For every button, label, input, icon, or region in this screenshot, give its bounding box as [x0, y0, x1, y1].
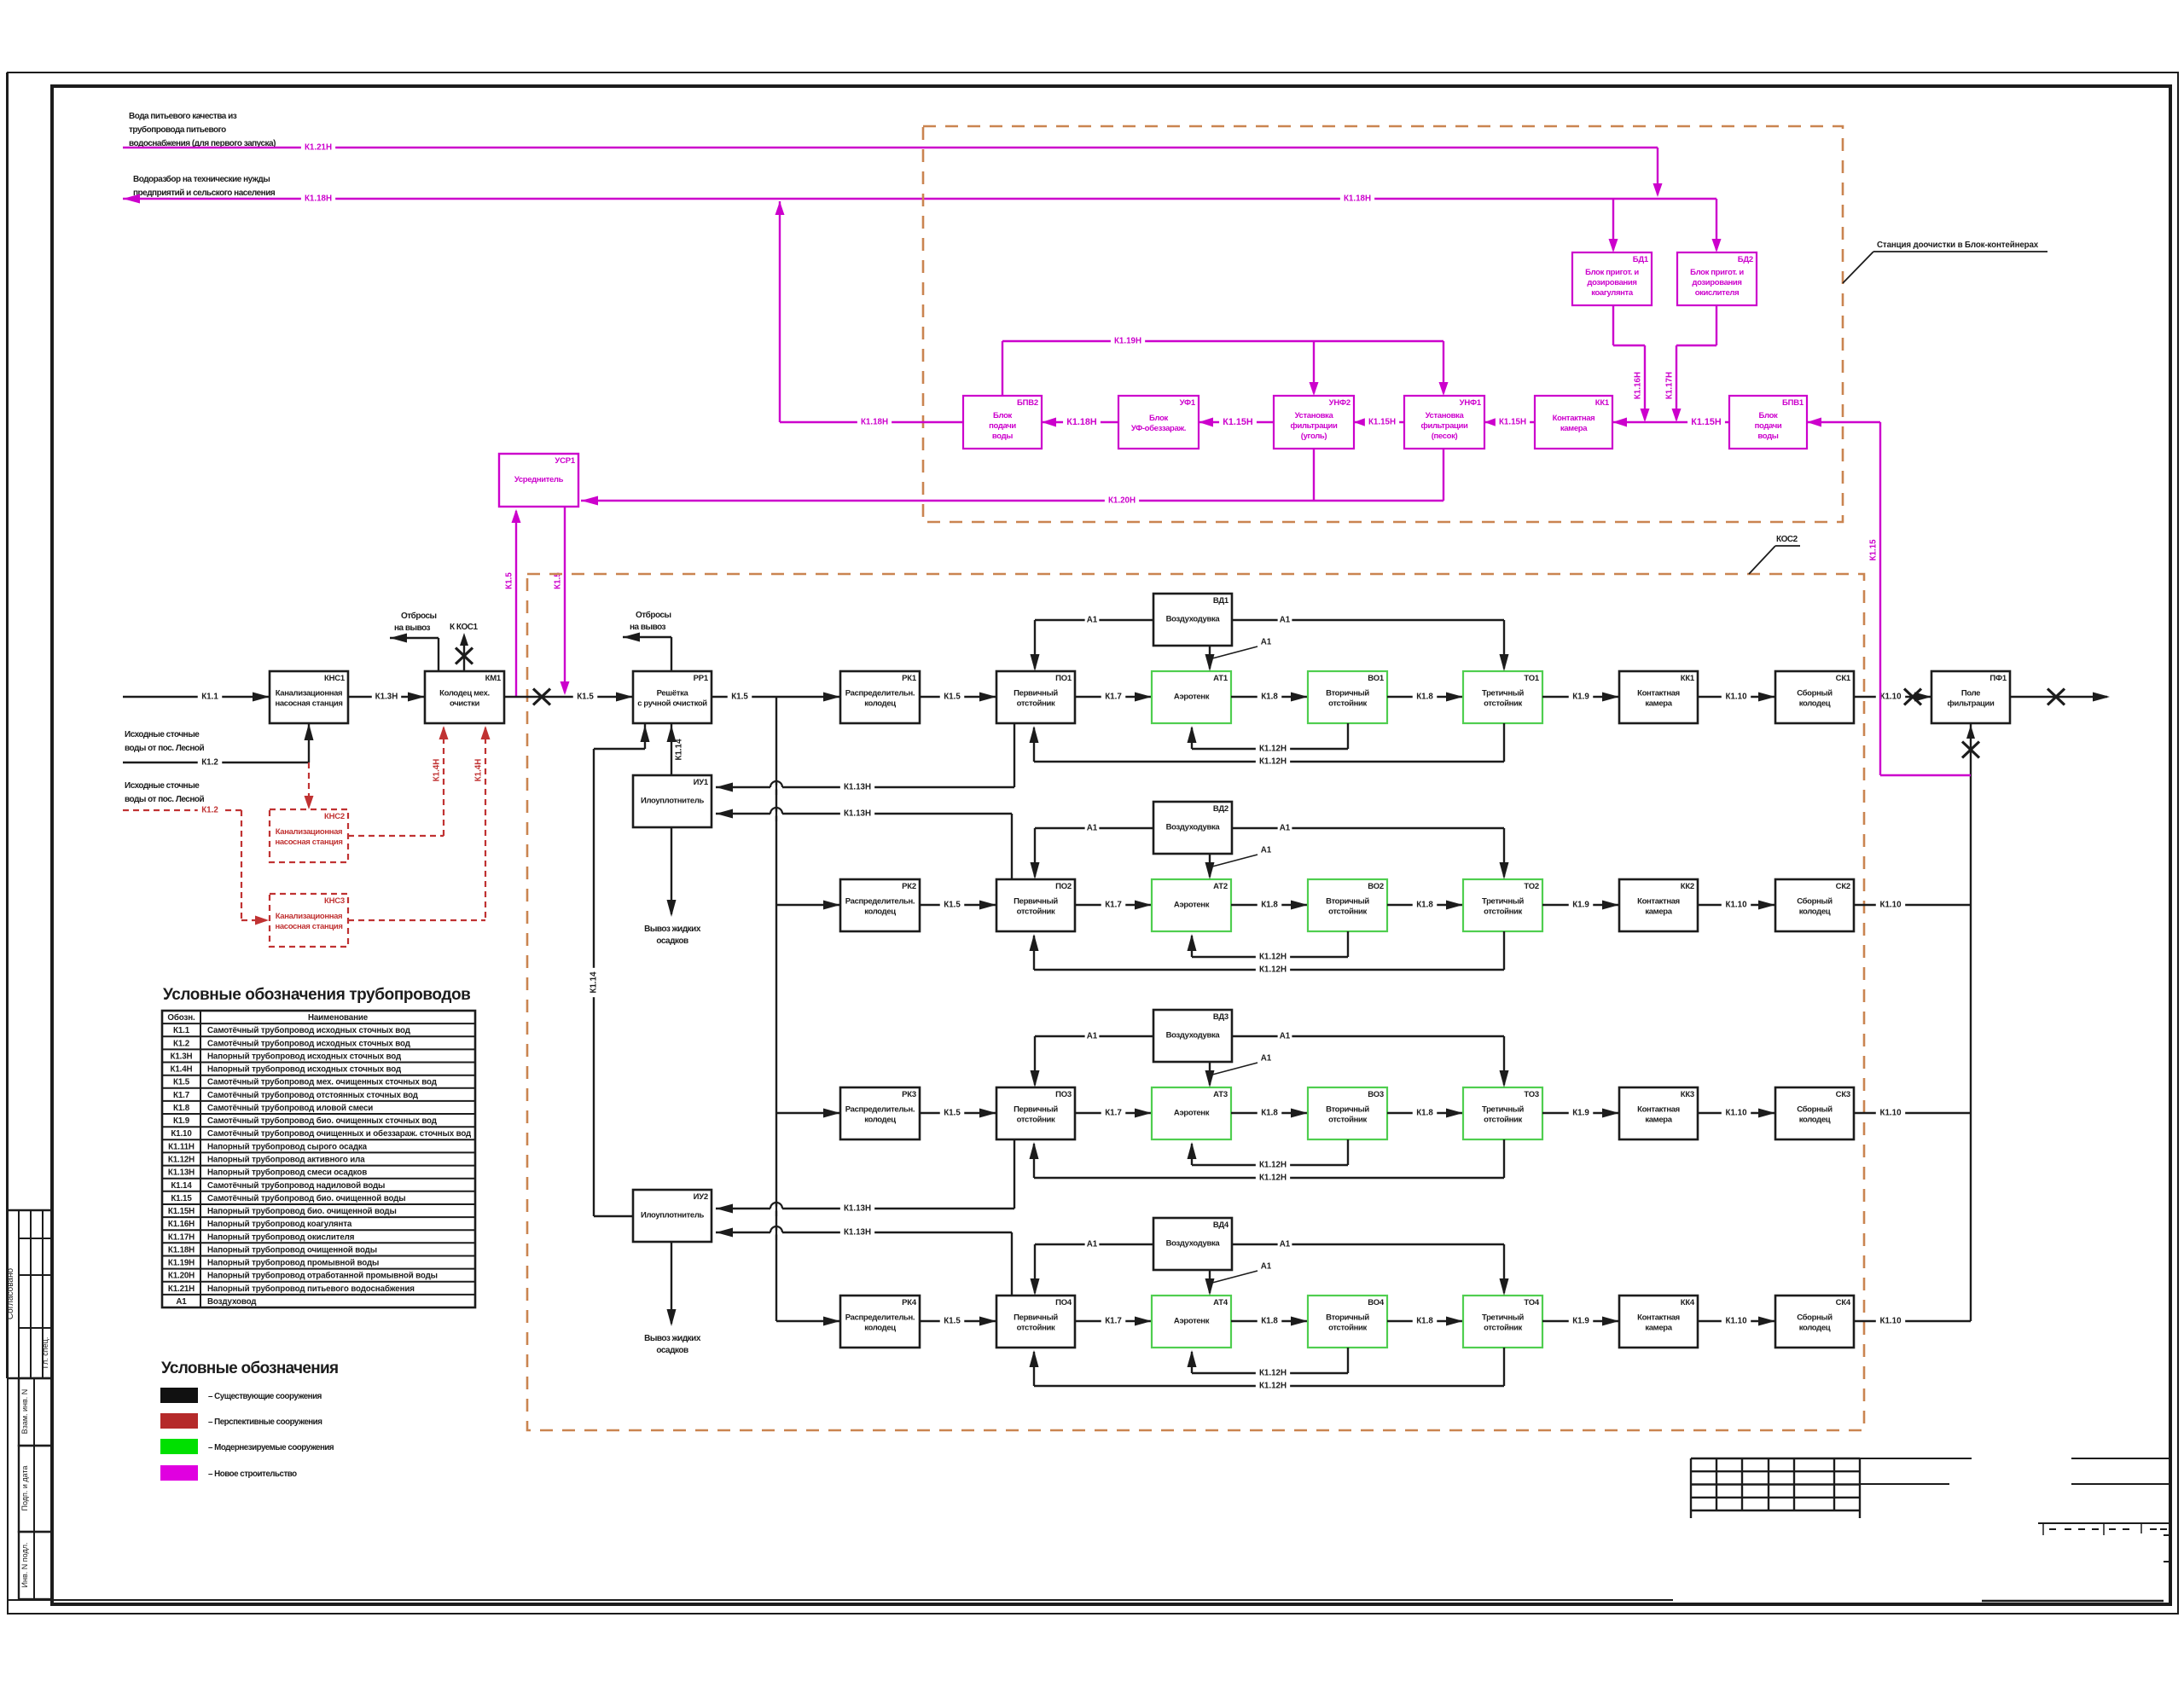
svg-text:К1.8: К1.8 — [173, 1104, 190, 1113]
wire К1.5 branch to РК4 — [776, 1320, 840, 1322]
svg-text:Вторичный: Вторичный — [1326, 1313, 1369, 1323]
svg-text:К1.14: К1.14 — [675, 739, 684, 761]
svg-text:ВО1: ВО1 — [1368, 674, 1385, 683]
svg-text:К1.2: К1.2 — [173, 1039, 190, 1048]
wire К1.2 inflow to КНС1 bottom — [123, 762, 309, 763]
svg-text:К1.5: К1.5 — [505, 572, 514, 589]
svg-text:АТ4: АТ4 — [1213, 1298, 1228, 1307]
wire К1.18Н treated water to consumers — [123, 198, 1716, 200]
svg-text:коагулянта: коагулянта — [1591, 288, 1634, 298]
left stamp column boxes — [6, 72, 8, 1378]
box АТ1 aeration tank (modernized) — [1152, 671, 1231, 723]
svg-text:К1.12Н: К1.12Н — [1259, 953, 1287, 962]
wire К1.9 ТО1 to КК1 — [1542, 696, 1619, 698]
svg-text:Аэротенк: Аэротенк — [1174, 693, 1210, 702]
legend swatch Существующие сооружения — [160, 1388, 198, 1403]
svg-text:фильтрации: фильтрации — [1421, 421, 1468, 431]
svg-text:К1.10: К1.10 — [1879, 693, 1902, 702]
box ПО4 primary settler — [996, 1296, 1075, 1348]
svg-text:К1.8: К1.8 — [1261, 1109, 1278, 1118]
wire into БД2 top — [1716, 199, 1717, 250]
box ПО1 primary settler — [996, 671, 1075, 723]
svg-text:ВД3: ВД3 — [1213, 1012, 1228, 1022]
wire К1.10 СК2 to collector — [1854, 904, 1971, 906]
svg-text:К1.9: К1.9 — [1572, 693, 1589, 702]
wire К1.12Н sludge ТО2 to ПО2 — [1503, 931, 1505, 970]
svg-text:К1.8: К1.8 — [1261, 901, 1278, 910]
svg-text:К1.10: К1.10 — [1725, 901, 1747, 910]
wire К1.5 branch to РК3 — [776, 1112, 840, 1114]
svg-text:Контактная: Контактная — [1637, 689, 1680, 699]
box РК1 distribution well — [840, 671, 920, 723]
svg-text:Воздуходувка: Воздуходувка — [1166, 1239, 1221, 1249]
wire К1.17Н oxidizer line from БД2 — [1716, 305, 1717, 345]
wire К1.5 РК2 to ПО2 — [920, 904, 996, 906]
wire К1.12Н activated sludge ВО1 to АТ1 — [1347, 723, 1349, 749]
svg-text:Наименование: Наименование — [308, 1013, 369, 1023]
svg-text:А1: А1 — [1261, 846, 1272, 855]
svg-text:Напорный трубопровод питьевого: Напорный трубопровод питьевого водоснабж… — [207, 1284, 415, 1294]
svg-text:К1.9: К1.9 — [1572, 1317, 1589, 1326]
svg-text:Блок пригот. и: Блок пригот. и — [1690, 268, 1744, 277]
svg-text:колодец: колодец — [1799, 907, 1831, 917]
wire К1.4Н from КНС3 to КМ1 — [348, 919, 485, 921]
box ВД3 air blower — [1153, 1010, 1232, 1062]
svg-text:колодец: колодец — [1799, 699, 1831, 709]
legend swatch Перспективные сооружения — [160, 1413, 198, 1429]
wire К1.10 СК4 to collector — [1854, 1320, 1971, 1322]
svg-text:К1.9: К1.9 — [173, 1116, 190, 1126]
svg-text:Канализационная: Канализационная — [276, 827, 343, 837]
wire К1.14 from ИУ1 up to РР1 — [671, 723, 672, 775]
svg-text:РК3: РК3 — [902, 1090, 916, 1099]
svg-text:Распределительн.: Распределительн. — [845, 1313, 915, 1323]
wire К1.5 distribution riser down to lower rows — [775, 697, 777, 1321]
svg-text:К1.10: К1.10 — [171, 1129, 192, 1139]
svg-text:Третичный: Третичный — [1482, 1105, 1524, 1115]
wire А1 air to ПО4 — [1035, 1244, 1153, 1245]
svg-text:А1: А1 — [1280, 1032, 1291, 1041]
svg-text:К1.15: К1.15 — [171, 1194, 192, 1203]
svg-text:Согласовано: Согласовано — [6, 1268, 15, 1320]
wire А1 air to АТ2 with leader label — [1209, 854, 1211, 877]
svg-text:Сборный: Сборный — [1797, 1313, 1833, 1323]
svg-text:Гл. спец.: Гл. спец. — [41, 1337, 49, 1369]
svg-text:БПВ2: БПВ2 — [1017, 398, 1038, 408]
svg-text:А1: А1 — [1261, 638, 1272, 647]
box УНФ1 filtration unit (sand) — [1404, 396, 1484, 449]
stamp box Взам. инв. N — [19, 1378, 52, 1446]
svg-text:К1.13Н: К1.13Н — [844, 1228, 871, 1238]
svg-text:Напорный трубопровод исходных: Напорный трубопровод исходных сточных во… — [207, 1065, 402, 1075]
box КМ1 mechanical cleaning well — [425, 671, 504, 723]
svg-text:К1.7: К1.7 — [1105, 1317, 1122, 1326]
box БД2 oxidizer dosing unit — [1677, 252, 1757, 305]
svg-text:А1: А1 — [1087, 1240, 1098, 1249]
wire К1.8 АТ1 to ВО1 — [1231, 696, 1308, 698]
svg-text:камера: камера — [1645, 1116, 1672, 1125]
svg-text:Распределительн.: Распределительн. — [845, 689, 915, 699]
wire К1.1 raw sewage inflow — [123, 696, 270, 698]
wire БПВ2 output to К1.18Н riser — [780, 421, 963, 423]
svg-text:УНФ2: УНФ2 — [1329, 398, 1350, 408]
svg-text:ВО3: ВО3 — [1368, 1090, 1384, 1099]
wire К1.8 ВО3 to ТО3 — [1387, 1112, 1463, 1114]
box ПФ1 filtration field — [1931, 671, 2010, 723]
svg-text:осадков: осадков — [656, 1346, 688, 1355]
svg-text:К1.15Н: К1.15Н — [1499, 418, 1526, 427]
wire К1.9 ТО3 to КК3 — [1542, 1112, 1619, 1114]
wire К1.19Н wash water from БПВ2 to filters — [1002, 341, 1003, 396]
wire К1.9 ТО2 to КК2 — [1542, 904, 1619, 906]
box ИУ2 sludge thickener 2 — [633, 1190, 712, 1242]
svg-text:дозирования: дозирования — [1587, 278, 1636, 287]
wire ИУ2 discharge down — [671, 1242, 672, 1324]
wire К1.5 РР1 to РК1 with junction — [712, 696, 840, 698]
wire К1.7 ПО3 to АТ3 — [1075, 1112, 1152, 1114]
wire К1.21Н drinking water supply line — [123, 147, 1658, 148]
svg-text:Самотёчный трубопровод иловой: Самотёчный трубопровод иловой смеси — [207, 1104, 373, 1113]
svg-text:подачи: подачи — [989, 421, 1016, 431]
box КК1 contact chamber — [1619, 671, 1698, 723]
stamp box Инв. N подл. — [19, 1532, 52, 1599]
svg-text:СК4: СК4 — [1836, 1298, 1851, 1307]
svg-text:А1: А1 — [1087, 1032, 1098, 1041]
svg-text:очистки: очистки — [450, 699, 480, 709]
svg-text:Сборный: Сборный — [1797, 897, 1833, 907]
svg-text:КМ1: КМ1 — [485, 674, 502, 683]
svg-text:Условные обозначения трубопров: Условные обозначения трубопроводов — [163, 986, 470, 1004]
svg-text:Установка: Установка — [1295, 411, 1334, 420]
box ТО4 tertiary settler (modernized) — [1463, 1296, 1542, 1348]
wire К1.7 ПО2 to АТ2 — [1075, 904, 1152, 906]
wire ИУ1 discharge down — [671, 827, 672, 914]
svg-text:Вторичный: Вторичный — [1326, 689, 1369, 699]
box КК2 contact chamber — [1619, 879, 1698, 931]
wire К1.13Н from ПО2 to ИУ1 — [1011, 814, 1013, 879]
svg-text:ПО4: ПО4 — [1055, 1298, 1072, 1307]
svg-text:камера: камера — [1645, 699, 1672, 709]
svg-text:Подп. и дата: Подп. и дата — [20, 1465, 29, 1510]
svg-text:камера: камера — [1560, 424, 1588, 433]
svg-text:К1.21Н: К1.21Н — [305, 143, 332, 153]
wire БПВ1 to КК1 К1.15Н — [1612, 421, 1729, 423]
svg-text:отстойник: отстойник — [1484, 1116, 1522, 1125]
wire А1 air to АТ4 with leader label — [1209, 1270, 1211, 1293]
box АТ2 aeration tank (modernized) — [1152, 879, 1231, 931]
svg-text:К1.17Н: К1.17Н — [1665, 372, 1675, 399]
svg-text:А1: А1 — [1261, 1054, 1272, 1064]
wire К1.12Н activated sludge ВО4 to АТ4 — [1347, 1348, 1349, 1373]
svg-text:с ручной очисткой: с ручной очисткой — [637, 699, 707, 709]
svg-text:К1.12Н: К1.12Н — [1259, 1161, 1287, 1170]
wire А1 air to ПО1 — [1035, 619, 1153, 621]
svg-text:К1.4Н: К1.4Н — [171, 1065, 193, 1075]
svg-text:отстойник: отстойник — [1017, 907, 1055, 917]
svg-text:К1.8: К1.8 — [1416, 693, 1433, 702]
svg-text:К1.14: К1.14 — [171, 1181, 192, 1191]
box ПО3 primary settler — [996, 1087, 1075, 1139]
wire into БД1 top — [1612, 199, 1614, 250]
svg-text:Контактная: Контактная — [1637, 1105, 1680, 1115]
box БПВ2 water supply block 2 — [963, 396, 1042, 449]
box КК1 contact chamber (new) — [1535, 396, 1612, 449]
svg-text:А1: А1 — [1087, 616, 1098, 625]
wire К1.5 РК4 to ПО4 — [920, 1320, 996, 1322]
svg-text:КК1: КК1 — [1681, 674, 1695, 683]
box УНФ2 filtration unit (coal) — [1274, 396, 1354, 449]
wire А1 air to ТО4 — [1232, 1244, 1504, 1245]
wire К1.13Н from ПО3 to ИУ2 — [1014, 1139, 1015, 1209]
svg-text:насосная станция: насосная станция — [275, 699, 342, 709]
svg-text:К1.12Н: К1.12Н — [1259, 965, 1287, 975]
svg-text:отстойник: отстойник — [1017, 699, 1055, 709]
wire К1.12Н activated sludge ВО2 to АТ2 — [1347, 931, 1349, 957]
svg-text:К1.5: К1.5 — [944, 901, 961, 910]
svg-text:К1.18Н: К1.18Н — [1066, 417, 1097, 427]
svg-text:К1.18Н: К1.18Н — [168, 1245, 195, 1255]
svg-text:отстойник: отстойник — [1328, 1324, 1367, 1333]
svg-text:ВО2: ВО2 — [1368, 882, 1384, 891]
svg-text:УНФ1: УНФ1 — [1460, 398, 1482, 408]
svg-text:Сборный: Сборный — [1797, 1105, 1833, 1115]
svg-text:Водоразбор на технические нужд: Водоразбор на технические нужды — [133, 174, 270, 184]
svg-text:КК2: КК2 — [1681, 882, 1694, 891]
wire УНФ1 to УНФ2 К1.15Н — [1354, 421, 1404, 423]
svg-text:Распределительн.: Распределительн. — [845, 897, 915, 907]
svg-text:Самотёчный трубопровод био. оч: Самотёчный трубопровод био. очищенной во… — [207, 1194, 405, 1203]
svg-text:Первичный: Первичный — [1014, 689, 1058, 699]
box БПВ1 water supply block 1 — [1729, 396, 1807, 449]
box РР1 manual grate — [633, 671, 712, 723]
svg-text:К1.18Н: К1.18Н — [1344, 194, 1371, 204]
wire К1.5 from УСР1 down to main line — [564, 507, 566, 693]
svg-text:Напорный трубопровод смеси оса: Напорный трубопровод смеси осадков — [207, 1168, 367, 1178]
svg-text:насосная станция: насосная станция — [275, 922, 342, 931]
box СК4 collecting well — [1775, 1296, 1854, 1348]
svg-text:ТО4: ТО4 — [1524, 1298, 1540, 1307]
svg-text:ВО4: ВО4 — [1368, 1298, 1385, 1307]
svg-text:К1.17Н: К1.17Н — [168, 1232, 195, 1242]
svg-text:– Модернезируемые сооружения: – Модернезируемые сооружения — [208, 1443, 334, 1452]
svg-text:К1.19Н: К1.19Н — [168, 1259, 195, 1268]
svg-text:К1.16Н: К1.16Н — [1634, 372, 1643, 399]
svg-text:на вывоз: на вывоз — [394, 623, 431, 633]
svg-text:К1.21Н: К1.21Н — [168, 1284, 195, 1294]
wire К1.8 АТ2 to ВО2 — [1231, 904, 1308, 906]
box КНС3 perspective pumping station — [270, 894, 348, 947]
svg-text:КОС2: КОС2 — [1776, 535, 1798, 544]
svg-text:СК2: СК2 — [1836, 882, 1850, 891]
svg-text:К1.18Н: К1.18Н — [861, 418, 888, 427]
svg-text:ПФ1: ПФ1 — [1989, 674, 2007, 683]
svg-text:Илоуплотнитель: Илоуплотнитель — [641, 1211, 705, 1220]
svg-text:камера: камера — [1645, 1324, 1672, 1333]
svg-text:К1.13Н: К1.13Н — [844, 1204, 871, 1214]
svg-text:Третичный: Третичный — [1482, 897, 1524, 907]
wire А1 air to АТ3 with leader label — [1209, 1062, 1211, 1085]
box АТ4 aeration tank (modernized) — [1152, 1296, 1231, 1348]
wire А1 air to АТ1 with leader label — [1209, 646, 1211, 669]
svg-text:К1.12Н: К1.12Н — [168, 1156, 195, 1165]
svg-text:фильтрации: фильтрации — [1291, 421, 1338, 431]
svg-text:Самотёчный трубопровод очищенн: Самотёчный трубопровод очищенных и обезз… — [207, 1129, 472, 1139]
wire К1.10 СК3 to collector — [1854, 1112, 1971, 1114]
svg-text:ТО2: ТО2 — [1524, 882, 1539, 891]
svg-text:К1.13Н: К1.13Н — [844, 809, 871, 819]
svg-text:Аэротенк: Аэротенк — [1174, 901, 1210, 910]
box СК3 collecting well — [1775, 1087, 1854, 1139]
box ВО3 secondary settler (modernized) — [1308, 1087, 1387, 1139]
wire К1.8 АТ3 to ВО3 — [1231, 1112, 1308, 1114]
svg-text:Третичный: Третичный — [1482, 689, 1524, 699]
svg-text:Самотёчный трубопровод био. оч: Самотёчный трубопровод био. очищенных ст… — [207, 1116, 438, 1126]
wire УНФ2 to УФ1 К1.15Н — [1199, 421, 1274, 423]
wire К1.10 КК4 to СК4 — [1698, 1320, 1775, 1322]
svg-text:отстойник: отстойник — [1484, 699, 1522, 709]
box ВО2 secondary settler (modernized) — [1308, 879, 1387, 931]
svg-text:К1.10: К1.10 — [1725, 1109, 1747, 1118]
title block lines extending right — [1860, 1458, 1972, 1459]
svg-text:Воздуходувка: Воздуходувка — [1166, 823, 1221, 832]
svg-text:К1.14: К1.14 — [590, 971, 599, 994]
svg-text:колодец: колодец — [1799, 1324, 1831, 1333]
svg-text:К1.8: К1.8 — [1416, 901, 1433, 910]
wire К1.8 АТ4 to ВО4 — [1231, 1320, 1308, 1322]
svg-text:РК2: РК2 — [902, 882, 916, 891]
svg-text:отстойник: отстойник — [1017, 1116, 1055, 1125]
svg-text:ВД1: ВД1 — [1213, 596, 1229, 606]
svg-text:воды от пос. Лесной: воды от пос. Лесной — [125, 795, 204, 804]
svg-text:К1.5: К1.5 — [173, 1078, 190, 1087]
svg-text:УФ1: УФ1 — [1180, 398, 1196, 408]
svg-text:К1.9: К1.9 — [1572, 1109, 1589, 1118]
svg-text:ПО1: ПО1 — [1055, 674, 1072, 683]
svg-text:Напорный трубопровод очищенной: Напорный трубопровод очищенной воды — [207, 1245, 377, 1255]
svg-text:Станция доочистки в Блок-конте: Станция доочистки в Блок-контейнерах — [1877, 241, 2039, 250]
svg-text:Самотёчный трубопровод исходны: Самотёчный трубопровод исходных сточных … — [207, 1026, 411, 1035]
wire К1.7 ПО4 to АТ4 — [1075, 1320, 1152, 1322]
legend swatch Модернезируемые сооружения — [160, 1439, 198, 1454]
svg-text:СК3: СК3 — [1836, 1090, 1850, 1099]
svg-text:Вторичный: Вторичный — [1326, 1105, 1369, 1115]
wire А1 air to ТО2 — [1232, 827, 1504, 829]
svg-text:К1.8: К1.8 — [1261, 693, 1278, 702]
svg-text:Взам. инв. N: Взам. инв. N — [20, 1389, 29, 1435]
box РК4 distribution well — [840, 1296, 920, 1348]
svg-text:А1: А1 — [1280, 616, 1291, 625]
svg-text:КК4: КК4 — [1681, 1298, 1695, 1307]
wire collector riser to ПФ1 bottom with valve — [1970, 723, 1972, 1321]
svg-text:Отбросы: Отбросы — [401, 611, 437, 621]
svg-text:Первичный: Первичный — [1014, 1105, 1058, 1115]
svg-text:К1.12Н: К1.12Н — [1259, 1369, 1287, 1378]
svg-text:К1.9: К1.9 — [1572, 901, 1589, 910]
svg-text:Исходные сточные: Исходные сточные — [125, 781, 200, 791]
svg-text:ТО3: ТО3 — [1524, 1090, 1539, 1099]
svg-text:К1.20Н: К1.20Н — [1108, 496, 1136, 506]
svg-text:предприятий и сельского населе: предприятий и сельского населения — [133, 188, 276, 198]
svg-text:отстойник: отстойник — [1328, 699, 1367, 709]
svg-text:К1.10: К1.10 — [1725, 693, 1747, 702]
svg-text:Аэротенк: Аэротенк — [1174, 1317, 1210, 1326]
wire К1.12Н sludge ТО3 to ПО3 — [1503, 1139, 1505, 1178]
callout: Станция доочистки label — [1843, 252, 1873, 283]
wire К1.21Н drop to dosing units — [1657, 148, 1658, 194]
svg-text:ВД2: ВД2 — [1213, 804, 1228, 814]
svg-text:К1.15: К1.15 — [1869, 539, 1879, 561]
svg-text:Напорный трубопровод сырого ос: Напорный трубопровод сырого осадка — [207, 1142, 368, 1151]
svg-text:КК1: КК1 — [1595, 398, 1610, 408]
svg-text:Блок: Блок — [993, 411, 1012, 420]
wire outflow from ПФ1 with valve — [2010, 696, 2107, 698]
svg-text:К1.18Н: К1.18Н — [305, 194, 332, 204]
wire К1.9 ТО4 to КК4 — [1542, 1320, 1619, 1322]
svg-text:РК4: РК4 — [902, 1298, 917, 1307]
box ВД1 air blower — [1153, 594, 1232, 646]
svg-text:колодец: колодец — [864, 1324, 896, 1333]
svg-text:Напорный трубопровод исходных: Напорный трубопровод исходных сточных во… — [207, 1052, 402, 1062]
svg-text:Установка: Установка — [1426, 411, 1465, 420]
svg-text:К1.4Н: К1.4Н — [474, 759, 484, 782]
svg-text:Усреднитель: Усреднитель — [514, 475, 564, 484]
svg-text:Третичный: Третичный — [1482, 1313, 1524, 1323]
svg-text:К1.2: К1.2 — [201, 758, 218, 768]
svg-text:К1.4Н: К1.4Н — [433, 759, 442, 782]
legend table grid — [162, 1011, 475, 1307]
svg-text:камера: камера — [1645, 907, 1672, 917]
svg-text:К1.5: К1.5 — [577, 693, 594, 702]
svg-text:К1.15Н: К1.15Н — [1691, 417, 1722, 427]
svg-text:БД1: БД1 — [1633, 255, 1649, 264]
svg-text:Вторичный: Вторичный — [1326, 897, 1369, 907]
svg-text:К1.1: К1.1 — [201, 693, 218, 702]
svg-text:К1.10: К1.10 — [1725, 1317, 1747, 1326]
wire А1 air to ПО2 — [1035, 827, 1153, 829]
svg-text:Самотёчный трубопровод отстоян: Самотёчный трубопровод отстоянных сточны… — [207, 1091, 419, 1100]
svg-text:отстойник: отстойник — [1017, 1324, 1055, 1333]
svg-text:Канализационная: Канализационная — [276, 689, 343, 699]
svg-text:Блок: Блок — [1759, 411, 1778, 420]
wire К1.10 СК1 to ПФ1 with valve — [1854, 696, 1931, 698]
svg-text:К1.1: К1.1 — [173, 1026, 190, 1035]
svg-text:БД2: БД2 — [1738, 255, 1753, 264]
svg-text:УФ-обеззараж.: УФ-обеззараж. — [1131, 424, 1186, 433]
wire КМ1 to РР1 with valve — [504, 696, 633, 698]
svg-text:К КОС1: К КОС1 — [450, 623, 478, 632]
box ВО4 secondary settler (modernized) — [1308, 1296, 1387, 1348]
svg-text:К1.8: К1.8 — [1416, 1109, 1433, 1118]
svg-text:Блок пригот. и: Блок пригот. и — [1585, 268, 1639, 277]
svg-text:отстойник: отстойник — [1328, 907, 1367, 917]
box КК3 contact chamber — [1619, 1087, 1698, 1139]
box РК3 distribution well — [840, 1087, 920, 1139]
svg-text:Инв. N подл.: Инв. N подл. — [20, 1543, 29, 1588]
svg-text:Исходные сточные: Исходные сточные — [125, 730, 200, 739]
svg-text:ИУ2: ИУ2 — [694, 1192, 708, 1202]
svg-text:К1.8: К1.8 — [1261, 1317, 1278, 1326]
svg-text:КК3: КК3 — [1681, 1090, 1694, 1099]
svg-text:К1.20Н: К1.20Н — [168, 1272, 195, 1281]
svg-text:Блок: Блок — [1149, 414, 1168, 423]
wire К1.8 ВО2 to ТО2 — [1387, 904, 1463, 906]
box СК1 collecting well — [1775, 671, 1854, 723]
svg-text:КНС1: КНС1 — [324, 674, 346, 683]
svg-text:К1.3Н: К1.3Н — [171, 1052, 193, 1062]
svg-text:К1.10: К1.10 — [1879, 901, 1902, 910]
svg-text:К1.2: К1.2 — [201, 806, 218, 815]
box ВД2 air blower — [1153, 802, 1232, 854]
